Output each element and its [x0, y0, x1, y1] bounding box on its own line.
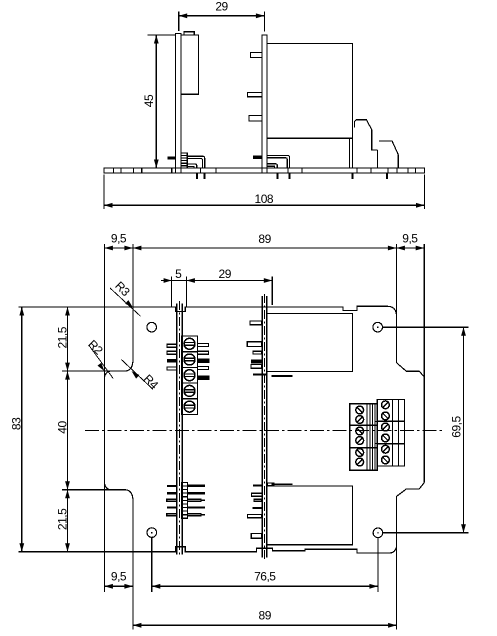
- dimension 9.5 (plan bottom): [104, 585, 132, 587]
- svg-text:40: 40: [56, 421, 70, 434]
- mounting hole top-right: [373, 322, 383, 332]
- right PCB centerline: [264, 294, 266, 560]
- mounting hole bottom-left: [147, 528, 157, 538]
- radius label R4 leader: [121, 359, 153, 389]
- dimension 5 (plan): [171, 277, 173, 307]
- relay foot: [348, 138, 350, 168]
- dimension 9.5 right (plan top): [396, 247, 424, 249]
- dimension 89 (plan bottom): [133, 624, 397, 626]
- right PCB bent lead 1: [267, 155, 290, 168]
- left PCB bent lead 2: [187, 164, 197, 168]
- svg-text:5: 5: [175, 267, 182, 281]
- dimension 83 (plan left): [21, 307, 23, 552]
- base plate segment notches: [113, 168, 115, 173]
- right PCB bent lead 2: [267, 164, 277, 168]
- svg-text:9,5: 9,5: [111, 570, 127, 584]
- body right edge upper segment: [396, 313, 424, 377]
- terminal block right column step: [375, 422, 377, 444]
- svg-text:83: 83: [10, 417, 24, 430]
- capacitor body on left PCB: [181, 35, 199, 94]
- dimension 21.5 top (plan left): [67, 307, 69, 371]
- svg-text:76,5: 76,5: [254, 570, 276, 584]
- solder pins below base plate: [196, 173, 198, 179]
- terminal block profile 2 (side view): [379, 141, 398, 168]
- right PCB bottom pin: [253, 156, 262, 159]
- svg-text:108: 108: [255, 192, 274, 206]
- svg-text:9,5: 9,5: [111, 231, 127, 245]
- left PCB pin header block: [181, 153, 187, 168]
- plan view bottom edge: [19, 547, 397, 553]
- right PCB pin 2: [248, 92, 263, 96]
- flange right edge: [423, 244, 425, 377]
- left PCB edge (plan view): [176, 304, 178, 555]
- relay body bottom (plan view): [267, 486, 353, 545]
- mounting hole top-left: [147, 322, 157, 332]
- terminal block left column screws: [356, 406, 364, 414]
- svg-text:21,5: 21,5: [56, 508, 70, 530]
- left PCB (side view): [176, 34, 182, 174]
- hole extension line top-right: [383, 326, 469, 328]
- lower-left shoulder / extension line: [62, 489, 125, 491]
- dimension 69.5 (plan right): [463, 327, 465, 533]
- svg-text:29: 29: [219, 267, 232, 281]
- horizontal centerline: [85, 429, 442, 431]
- svg-text:89: 89: [258, 232, 271, 246]
- dimension 29 (side view): [178, 12, 180, 32]
- flange right edge middle band: [423, 377, 425, 483]
- right PCB lower pins: [253, 484, 262, 486]
- base mounting plate (side view): [104, 168, 425, 173]
- dimension 76.5 (plan bottom): [152, 585, 378, 587]
- upper terminal strip on left PCB: [181, 336, 197, 415]
- left PCB centerline: [179, 301, 181, 556]
- upper-left pins (left side): [167, 344, 177, 347]
- left PCB bent lead 1: [187, 156, 204, 168]
- upper terminal strip screws: [184, 338, 195, 349]
- lower-left pins (left side): [167, 485, 177, 487]
- body right edge lower segment: [396, 483, 424, 551]
- dimension 21.5 bottom (plan left): [67, 490, 69, 552]
- terminal block right column inner lines: [391, 400, 393, 467]
- flange left edge: [103, 244, 105, 592]
- relay top mounting rib: [272, 375, 293, 377]
- terminal block right column screws: [382, 401, 390, 409]
- left PCB left pin: [168, 156, 176, 159]
- dimension 29 (plan): [271, 277, 273, 306]
- relay body top (plan view): [267, 314, 353, 372]
- body extension lines bottom: [132, 552, 134, 630]
- dimension 89 (plan top): [395, 244, 397, 313]
- right PCB pin 3: [249, 116, 262, 122]
- dimension 9.5 left (plan top): [132, 244, 134, 307]
- body left edge upper segment with R4 fillet: [125, 307, 134, 371]
- svg-text:69,5: 69,5: [449, 415, 463, 437]
- upper-left shoulder / extension line 21.5: [62, 370, 125, 372]
- terminal block left column: [350, 404, 378, 471]
- terminal block right column: [377, 400, 404, 467]
- right PCB (side view): [262, 35, 267, 173]
- radius label R3 leader: [110, 288, 141, 316]
- svg-text:29: 29: [215, 0, 228, 14]
- plan view top edge: [19, 306, 397, 314]
- svg-text:45: 45: [142, 94, 156, 107]
- terminal block partition lines: [366, 404, 368, 471]
- dimension 45 (side view): [148, 34, 176, 36]
- hole extension lines bottom: [151, 538, 153, 592]
- svg-text:89: 89: [259, 609, 272, 623]
- R2 fillet at lower-left flange: [104, 483, 111, 490]
- upper-left pins (right side): [198, 343, 209, 346]
- lower-left pins (right side): [187, 485, 204, 487]
- R2 fillet at upper-left flange: [104, 371, 111, 378]
- mounting hole bottom-right: [373, 528, 383, 538]
- lower pin header on left PCB: [182, 482, 188, 518]
- body left edge lower segment with R4 fillet: [125, 490, 134, 552]
- relay bottom mounting rib: [272, 483, 293, 485]
- svg-text:21,5: 21,5: [56, 326, 70, 348]
- terminal block profile 1 leg: [376, 150, 378, 168]
- dimension 40 (plan left): [67, 371, 69, 490]
- dimension 108 (side view): [103, 175, 105, 210]
- radius label R2 leader: [89, 345, 114, 379]
- capacitor cap: [184, 32, 194, 35]
- relay body (side view): [267, 44, 353, 139]
- right PCB pin 1: [251, 53, 263, 58]
- right PCB upper pins: [250, 321, 261, 325]
- hole extension line bottom-right: [383, 532, 469, 534]
- svg-text:9,5: 9,5: [402, 231, 418, 245]
- terminal block profile 1 (side view): [355, 120, 378, 150]
- right PCB edge (plan view): [261, 296, 263, 558]
